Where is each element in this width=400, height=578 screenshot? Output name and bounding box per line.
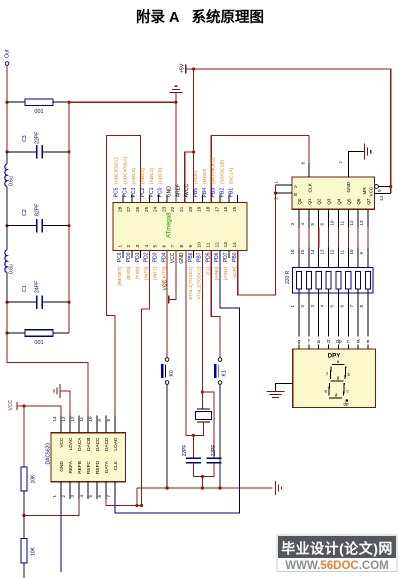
- svg-text:PC3: PC3: [131, 187, 137, 197]
- svg-text:12: 12: [330, 249, 335, 255]
- svg-text:14: 14: [310, 249, 315, 255]
- wire to bus: [201, 477, 203, 489]
- svg-text:13: 13: [359, 220, 364, 226]
- svg-text:PD6: PD6: [214, 252, 220, 262]
- svg-text:PD0: PD0: [126, 252, 132, 262]
- svg-text:(AIN0): (AIN0): [214, 266, 220, 280]
- svg-text:K1: K1: [222, 370, 228, 376]
- svg-text:0.6u: 0.6u: [9, 264, 15, 274]
- 164 output pin stubs: [299, 209, 368, 227]
- svg-text:(SS/OC1B): (SS/OC1B): [220, 160, 226, 184]
- svg-text:b: b: [327, 339, 330, 345]
- svg-text:PB0: PB0: [232, 252, 238, 262]
- resistor pack bottom pin numbers 1..8: [290, 305, 364, 308]
- svg-text:XTAL2(TOSC2): XTAL2(TOSC2): [197, 266, 203, 300]
- svg-text:10: 10: [330, 220, 335, 226]
- svg-text:GND: GND: [179, 252, 185, 264]
- svg-text:001: 001: [34, 109, 43, 115]
- svg-text:10: 10: [88, 416, 93, 422]
- svg-text:16: 16: [290, 249, 295, 255]
- node rail-R1: [5, 101, 8, 104]
- node: [67, 224, 70, 227]
- wire ground bus bottom: [137, 487, 273, 489]
- svg-text:11: 11: [206, 242, 212, 247]
- 7seg segment letters: [325, 359, 351, 407]
- capacitor C1 24PF: [7, 281, 69, 310]
- svg-text:13: 13: [320, 249, 325, 255]
- svg-text:Q1: Q1: [307, 198, 312, 205]
- svg-text:GND: GND: [167, 186, 173, 198]
- svg-text:PC6: PC6: [117, 252, 123, 262]
- svg-text:Q5: Q5: [346, 198, 351, 205]
- ground symbol (bus right): [275, 481, 281, 495]
- svg-text:DACB: DACB: [86, 438, 92, 451]
- svg-text:REFD: REFD: [95, 460, 101, 474]
- node aref branch: [192, 150, 195, 153]
- svg-text:14: 14: [379, 195, 384, 201]
- wire bus left end drop: [136, 488, 138, 506]
- svg-text:C1: C1: [22, 285, 28, 292]
- wire AVCC drop: [193, 69, 195, 203]
- wire MCU pin4 to DAC DATA run: [142, 251, 150, 506]
- wire left rail top: [6, 65, 8, 102]
- svg-text:g: g: [298, 339, 301, 345]
- svg-text:(ADC2): (ADC2): [140, 168, 146, 184]
- svg-text:3: 3: [135, 245, 141, 248]
- svg-text:(ADC1): (ADC1): [149, 168, 155, 184]
- svg-text:(ADC4/SDA): (ADC4/SDA): [122, 156, 128, 184]
- svg-text:Q7: Q7: [366, 198, 371, 205]
- svg-text:LDAC: LDAC: [68, 437, 74, 450]
- wire R4 down: [23, 563, 25, 578]
- 7seg dp dot: [346, 399, 349, 402]
- svg-text:22PF: 22PF: [211, 445, 217, 457]
- MCU top port labels: [114, 183, 235, 197]
- node: [201, 475, 204, 478]
- wire xtal2 down to crystal: [201, 392, 203, 409]
- node: [67, 101, 70, 104]
- svg-text:DATA: DATA: [104, 460, 110, 473]
- svg-text:(ADC3): (ADC3): [131, 168, 137, 184]
- wire DAC pin6 DATA: [106, 499, 142, 506]
- 164 VCC pin14 stub: [375, 193, 391, 195]
- wire crystal bottom: [194, 422, 204, 435]
- 164 CLK pin8 stub: [308, 163, 310, 177]
- wires pack to DPY: [299, 289, 368, 349]
- svg-text:12: 12: [214, 242, 220, 248]
- svg-text:26: 26: [135, 206, 141, 212]
- svg-text:PB7: PB7: [197, 252, 203, 262]
- svg-text:A: A: [294, 184, 297, 189]
- svg-text:(ICP): (ICP): [232, 266, 238, 278]
- svg-text:ATmega8: ATmega8: [166, 212, 172, 238]
- svg-text:C2: C2: [22, 209, 28, 216]
- svg-text:d: d: [335, 393, 338, 398]
- capacitor C2 82PF: [7, 204, 69, 233]
- svg-text:24: 24: [153, 206, 159, 212]
- wire xtal2 to cap C5: [202, 392, 214, 458]
- svg-text:(TXD): (TXD): [135, 266, 141, 279]
- node: [22, 404, 25, 407]
- MCU top NC pin stubs: [123, 195, 238, 203]
- svg-text:毕业设计(论文)网: 毕业设计(论文)网: [281, 541, 393, 557]
- svg-text:a: a: [317, 339, 320, 345]
- svg-text:19: 19: [197, 206, 203, 212]
- svg-text:GND: GND: [59, 460, 65, 471]
- MCU top orange function labels: [114, 156, 235, 184]
- svg-text:7: 7: [170, 245, 176, 248]
- svg-text:(T1): (T1): [205, 266, 211, 275]
- ground symbol (top center): [169, 86, 182, 101]
- svg-text:15: 15: [300, 249, 305, 255]
- svg-text:PD4: PD4: [161, 252, 167, 262]
- svg-text:PB2: PB2: [220, 188, 226, 198]
- resistor 001 (bottom): [7, 330, 69, 346]
- wire MCU pin12 blue net to DAC CLK: [115, 251, 240, 514]
- svg-text:13: 13: [61, 416, 66, 422]
- node: [135, 504, 138, 507]
- svg-text:e: e: [367, 339, 370, 345]
- wire XTAL2 net: [201, 251, 203, 393]
- svg-text:4: 4: [144, 245, 150, 248]
- node: [140, 504, 143, 507]
- svg-text:18: 18: [206, 206, 212, 212]
- svg-text:12: 12: [349, 220, 354, 226]
- node avcc drop: [192, 67, 195, 70]
- 164 output pin numbers: [290, 220, 364, 226]
- svg-text:PB4: PB4: [202, 188, 208, 198]
- svg-text:22: 22: [170, 206, 176, 212]
- svg-text:82PF: 82PF: [35, 204, 41, 216]
- resistor elements inside pack: [296, 272, 370, 290]
- svg-text:15: 15: [232, 206, 238, 212]
- DPY segment letters: [296, 337, 372, 346]
- wire R3 to node: [23, 491, 25, 515]
- key K1: [214, 358, 228, 385]
- svg-text:(INT1): (INT1): [153, 266, 159, 280]
- svg-text:AREF: AREF: [175, 184, 181, 197]
- svg-text:22PF: 22PF: [182, 445, 188, 457]
- wire MCU pin6 to key K0: [166, 251, 168, 358]
- svg-text:dp: dp: [336, 339, 342, 345]
- 164 GND pin7 to ground: [348, 152, 364, 177]
- 7seg digit: [329, 365, 346, 398]
- DAC bottom pin stubs: [61, 482, 115, 499]
- 164 pin A stub: [276, 184, 293, 186]
- wire AREF branch: [185, 152, 194, 203]
- svg-text:(SCK): (SCK): [193, 171, 199, 184]
- svg-text:(OC1A): (OC1A): [228, 167, 234, 184]
- node 164 A-B tie: [274, 191, 277, 194]
- svg-text:14: 14: [52, 416, 57, 422]
- svg-text:Q0: Q0: [297, 198, 302, 205]
- svg-text:PD5: PD5: [205, 252, 211, 262]
- svg-text:Q4: Q4: [336, 198, 341, 205]
- ground symbol (164 GND): [364, 144, 370, 160]
- svg-text:16: 16: [223, 206, 229, 212]
- svg-text:REFA: REFA: [68, 460, 74, 473]
- resistor R3 10K: [21, 467, 37, 491]
- svg-text:25: 25: [144, 206, 150, 212]
- 164 Q0..Q7 labels: [297, 198, 371, 205]
- svg-text:12: 12: [70, 416, 75, 422]
- svg-text:LOAD: LOAD: [113, 437, 119, 451]
- inductor L1 0.6u: [5, 164, 15, 186]
- node: [67, 301, 70, 304]
- 164 pin B stub: [276, 192, 293, 194]
- svg-text:MR: MR: [362, 187, 367, 195]
- svg-text:(ADC0): (ADC0): [158, 168, 164, 184]
- wire VCC down to R3: [23, 406, 25, 467]
- resistor 001 (top): [7, 99, 69, 115]
- svg-text:23: 23: [161, 206, 167, 212]
- wire ground net top: [69, 101, 176, 103]
- svg-text:DACA: DACA: [77, 437, 83, 451]
- svg-text:VCC: VCC: [170, 252, 176, 263]
- svg-text:10K: 10K: [31, 546, 37, 556]
- node xtal2: [201, 390, 204, 393]
- svg-text:(RESET): (RESET): [117, 266, 123, 286]
- MCU bottom orange function labels: [117, 266, 238, 300]
- svg-text:e: e: [325, 389, 328, 394]
- svg-text:REFB: REFB: [77, 461, 83, 474]
- wire right rail of filter: [68, 102, 70, 333]
- node rail-C2: [5, 224, 8, 227]
- MCU bottom pin numbers 1..14: [117, 242, 238, 248]
- svg-text:24PF: 24PF: [35, 281, 41, 293]
- ground symbol (DAC LDAC): [54, 384, 60, 398]
- DAC bottom pin numbers 1..7: [52, 495, 111, 498]
- svg-text:GND: GND: [346, 181, 352, 192]
- svg-text:PB1: PB1: [228, 188, 234, 198]
- terminal Out: [5, 49, 11, 65]
- svg-text:+5V: +5V: [180, 63, 186, 73]
- resistor pack top pin numbers 16..9: [290, 249, 364, 255]
- resistor R4 10K: [21, 515, 37, 563]
- svg-text:(MOSI/OC2): (MOSI/OC2): [211, 157, 217, 184]
- wire VCC to DAC pin14: [17, 406, 61, 416]
- wire DPY common to ground: [276, 383, 293, 391]
- node gnd-net: [174, 101, 177, 104]
- MCU top pin numbers 28..15: [117, 206, 238, 212]
- wire K1 to bus: [219, 384, 221, 488]
- capacitor C3 22PF: [7, 132, 69, 159]
- wire node to DAC pin3: [24, 499, 79, 515]
- svg-text:(AIN1): (AIN1): [223, 266, 229, 280]
- wire MCU pin26 to DAC pin8: [106, 136, 140, 416]
- svg-text:PC5: PC5: [114, 187, 120, 197]
- wire: [6, 226, 8, 250]
- svg-text:PB3: PB3: [211, 188, 217, 198]
- svg-text:(RXD): (RXD): [126, 266, 132, 280]
- svg-text:1: 1: [117, 245, 123, 248]
- svg-text:dp: dp: [343, 402, 349, 407]
- node: [218, 486, 221, 489]
- wire MCU GND pin 22 up: [175, 102, 177, 202]
- svg-text:K0: K0: [169, 370, 175, 376]
- svg-text:CLK: CLK: [308, 182, 314, 192]
- node: [165, 486, 168, 489]
- MCU bottom port labels: [117, 252, 238, 264]
- resistor network RP1 220: [285, 268, 373, 294]
- svg-text:a: a: [337, 359, 340, 364]
- capacitor C5 22PF: [207, 445, 222, 463]
- node rail-R2: [5, 331, 8, 334]
- svg-text:d: d: [357, 339, 360, 345]
- svg-text:21: 21: [179, 206, 185, 212]
- wire ground to DAC pin13: [60, 391, 70, 416]
- node divider: [22, 514, 25, 517]
- svg-text:Q2: Q2: [317, 198, 322, 205]
- wire MCU pin14 to 164 serial in: [238, 185, 276, 295]
- svg-text:17: 17: [214, 206, 220, 212]
- svg-text:2: 2: [126, 245, 132, 248]
- svg-text:PB5: PB5: [193, 188, 199, 198]
- svg-text:11: 11: [339, 220, 344, 225]
- svg-text:VCC: VCC: [59, 437, 65, 448]
- svg-text:14: 14: [232, 242, 238, 248]
- power +5V: [180, 63, 186, 73]
- svg-text:WWW.56DOC.COM: WWW.56DOC.COM: [285, 560, 389, 572]
- svg-text:DACD: DACD: [104, 437, 110, 451]
- wire: [6, 302, 8, 333]
- svg-text:AVCC: AVCC: [184, 183, 190, 197]
- wire filter to DAC pin11: [7, 333, 88, 416]
- wire: [6, 152, 8, 164]
- svg-text:g: g: [337, 375, 340, 380]
- svg-text:10K: 10K: [31, 474, 37, 484]
- svg-text:PC2: PC2: [140, 187, 146, 197]
- svg-text:001: 001: [34, 340, 43, 346]
- key K0: [161, 358, 175, 385]
- inductor L2 0.6u: [5, 250, 15, 274]
- svg-text:C3: C3: [22, 135, 28, 142]
- svg-text:(INT0): (INT0): [144, 266, 150, 280]
- svg-text:8: 8: [179, 245, 185, 248]
- svg-text:(ADC5/SCL): (ADC5/SCL): [114, 157, 120, 184]
- capacitor C4 22PF: [182, 445, 201, 463]
- svg-text:B: B: [294, 192, 297, 197]
- wire +5V rail: [186, 69, 391, 194]
- svg-text:PD1: PD1: [135, 252, 141, 262]
- svg-text:PC1: PC1: [149, 187, 155, 197]
- wire MCU pin18 to 164 CLK: [211, 135, 309, 202]
- svg-text:5: 5: [153, 245, 159, 248]
- wire left rail: [6, 102, 8, 152]
- wire K0 to bus: [166, 384, 168, 488]
- svg-text:11: 11: [79, 416, 84, 421]
- node rail-C3: [5, 150, 8, 153]
- svg-text:PB6: PB6: [188, 252, 194, 262]
- DAC bottom row labels: [59, 460, 119, 474]
- svg-text:VCC: VCC: [369, 186, 374, 196]
- wire to cap C4: [193, 435, 195, 458]
- svg-text:220 R: 220 R: [285, 270, 291, 284]
- ground symbol (DPY common): [267, 392, 285, 398]
- DAC top pin numbers 14..8: [52, 416, 111, 422]
- svg-text:REFC: REFC: [86, 460, 92, 474]
- svg-text:28: 28: [117, 206, 123, 212]
- svg-text:PD3: PD3: [153, 252, 159, 262]
- svg-text:PD7: PD7: [223, 252, 229, 262]
- power VCC bar at MCU pin7: [162, 251, 176, 304]
- node: [389, 185, 392, 188]
- power VCC (DAC): [8, 400, 17, 411]
- DAC top row labels: [59, 437, 119, 451]
- svg-text:Out: Out: [5, 49, 11, 58]
- svg-text:CLK: CLK: [113, 460, 119, 470]
- node rail-C1: [5, 301, 8, 304]
- wire: [6, 272, 8, 302]
- svg-text:DACC: DACC: [95, 437, 101, 451]
- svg-text:0.6u: 0.6u: [9, 176, 15, 186]
- svg-text:b: b: [348, 372, 351, 377]
- wire DAC pin1 GND down: [60, 499, 62, 572]
- svg-text:PD2: PD2: [144, 252, 150, 262]
- svg-text:13: 13: [223, 242, 229, 248]
- svg-text:22PF: 22PF: [35, 132, 41, 144]
- svg-text:PC4: PC4: [122, 187, 128, 197]
- 164 MR pin9 with bubble: [375, 185, 391, 192]
- svg-text:27: 27: [126, 206, 132, 212]
- DAC top pin stubs: [61, 416, 115, 433]
- node: [201, 486, 204, 489]
- svg-text:DAC5620: DAC5620: [46, 443, 52, 465]
- wires into resistor pack: [299, 248, 368, 272]
- MCU bottom NC pin stubs: [123, 251, 229, 259]
- crystal Y1: [196, 409, 212, 422]
- svg-text:VCC: VCC: [8, 400, 14, 411]
- wire: [6, 186, 8, 225]
- svg-text:20: 20: [188, 206, 194, 212]
- wires 164 outputs to resistor pack: [299, 228, 368, 248]
- svg-text:10: 10: [197, 242, 203, 248]
- svg-text:Q6: Q6: [356, 198, 361, 205]
- watermark 56doc: [277, 535, 397, 572]
- wire caps bottoms: [194, 463, 215, 477]
- svg-text:Q3: Q3: [327, 198, 332, 205]
- node: [192, 434, 195, 437]
- svg-text:(MISO): (MISO): [202, 168, 208, 184]
- svg-text:附录 A 系统原理图: 附录 A 系统原理图: [136, 8, 264, 26]
- svg-text:10: 10: [349, 249, 354, 255]
- node: [67, 150, 70, 153]
- wire MCU pin11 to key K1: [211, 251, 220, 358]
- svg-text:6: 6: [161, 245, 167, 248]
- svg-text:XTAL1(TOSC1): XTAL1(TOSC1): [188, 266, 194, 300]
- svg-text:PC0: PC0: [158, 187, 164, 197]
- svg-text:11: 11: [339, 249, 344, 254]
- wire XTAL1 net: [186, 251, 194, 436]
- svg-text:9: 9: [188, 245, 194, 248]
